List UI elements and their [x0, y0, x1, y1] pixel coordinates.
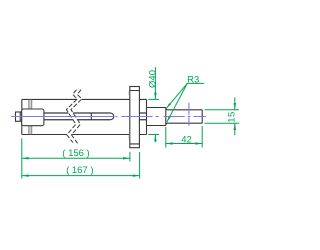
svg-text:( 167 ): ( 167 ) — [66, 165, 93, 176]
svg-text:Ø40: Ø40 — [147, 70, 158, 88]
svg-text:42: 42 — [181, 134, 192, 145]
svg-text:R3: R3 — [187, 75, 199, 86]
svg-text:( 156 ): ( 156 ) — [62, 148, 89, 159]
svg-text:15: 15 — [226, 111, 237, 122]
